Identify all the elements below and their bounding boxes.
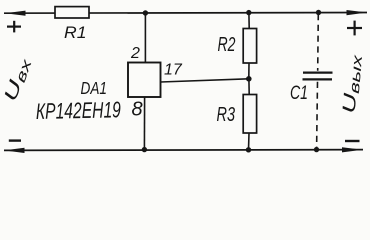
wire top bus to R2 [248, 13, 250, 29]
minus sign input [9, 139, 21, 141]
svg-text:17: 17 [164, 62, 183, 79]
pin 8 label [132, 99, 143, 121]
svg-text:КР142ЕН19: КР142ЕН19 [36, 97, 122, 124]
node junction bottom C1 [314, 147, 319, 152]
resistor R2 [243, 29, 256, 64]
resistor R1 [55, 7, 89, 18]
node junction top C1 [316, 10, 321, 15]
output terminal arrow top-right [347, 10, 368, 15]
node junction top R2 [246, 10, 251, 15]
wire dashed top bus to C1 [317, 14, 320, 71]
svg-text:R3: R3 [217, 104, 236, 126]
node Uvyx label [339, 53, 366, 114]
label C1 [290, 83, 308, 104]
node junction bottom R3 [246, 147, 251, 152]
label R2 [218, 34, 236, 56]
label DA1 [81, 78, 108, 98]
wire R3 to bottom bus [248, 133, 251, 150]
wire pin 8 to bottom bus [143, 97, 145, 150]
wire junction to pin 2 [144, 13, 146, 63]
svg-text:R1: R1 [64, 24, 87, 42]
plus sign input [7, 21, 21, 33]
pin 17 label [164, 62, 183, 79]
wire dashed C1 to bottom bus [316, 82, 319, 149]
resistor R3 [243, 95, 256, 134]
node divider junction [246, 76, 252, 82]
wire divider node to R3 [248, 79, 250, 95]
node junction bottom-center [142, 147, 147, 152]
label KR142EN19 [36, 97, 122, 124]
node Uvx label [0, 55, 35, 104]
svg-text:2: 2 [130, 45, 140, 62]
wire pin 17 to divider [161, 79, 249, 82]
pin 2 label [130, 45, 140, 62]
svg-text:R2: R2 [218, 34, 236, 56]
svg-text:8: 8 [132, 99, 143, 121]
label R1 [64, 24, 87, 42]
plus sign output [347, 21, 362, 36]
input terminal arrow top-left [5, 11, 26, 16]
capacitor C1 [303, 73, 333, 80]
input terminal arrow bottom-left [4, 148, 25, 153]
output terminal arrow bottom-right [342, 147, 363, 152]
IC DA1 box [128, 63, 161, 98]
wire R2 to divider node [248, 63, 250, 79]
node junction top-center [143, 10, 148, 15]
svg-text:DA1: DA1 [81, 78, 108, 98]
label R3 [217, 104, 236, 126]
wire top bus [4, 12, 367, 15]
wire bottom bus [4, 149, 363, 152]
minus sign output [345, 140, 360, 142]
svg-text:C1: C1 [290, 83, 308, 104]
